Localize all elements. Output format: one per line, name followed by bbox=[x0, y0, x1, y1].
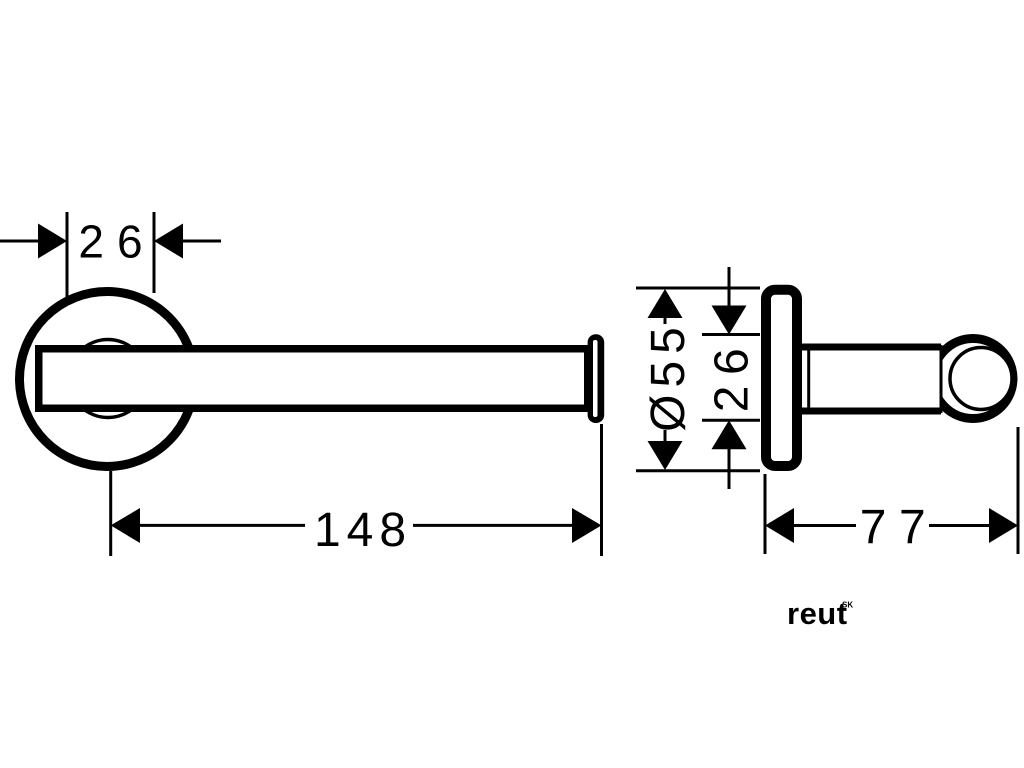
dim 26 (front) right tail line bbox=[183, 240, 221, 243]
svg-text:148: 148 bbox=[314, 504, 412, 557]
dim 26 (side) top tail line bbox=[728, 267, 731, 307]
side view: bar bottom edge bbox=[800, 408, 941, 415]
dim 77 line left segment bbox=[792, 524, 856, 527]
side view: bar top edge bbox=[800, 344, 941, 351]
dim 148 line left segment bbox=[138, 524, 305, 527]
side view: bar end line bbox=[940, 345, 943, 413]
dim 26 (side) bottom extension line bbox=[702, 419, 760, 422]
dim Ø55 down arrow bbox=[648, 441, 683, 470]
dim 26 (front) right arrow bbox=[154, 224, 183, 259]
svg-text:Ø55: Ø55 bbox=[642, 320, 695, 432]
dim Ø55 top extension line bbox=[636, 287, 760, 290]
svg-text:SK: SK bbox=[842, 601, 853, 610]
dim Ø55 line upper segment bbox=[664, 316, 667, 324]
front view: bar end cap bbox=[588, 334, 605, 423]
svg-text:77: 77 bbox=[860, 501, 938, 554]
dim 148 right arrow bbox=[572, 508, 602, 543]
dim 77 left extension line bbox=[764, 474, 767, 554]
dim 77 right arrow bbox=[989, 508, 1018, 543]
svg-text:26: 26 bbox=[706, 338, 759, 412]
dim Ø55 up arrow bbox=[648, 289, 683, 318]
dim 77 left arrow bbox=[765, 508, 794, 543]
side view: ring outer circle bbox=[933, 339, 1013, 419]
svg-text:reut: reut bbox=[787, 596, 848, 631]
side view: collar junction line bbox=[807, 350, 810, 408]
dim 77 line right segment bbox=[929, 524, 991, 527]
front view: bar end cap slit bbox=[593, 340, 598, 417]
front view: wall plate circle Ø55 bbox=[20, 292, 195, 467]
side view: ring inner circle bbox=[950, 348, 1012, 410]
side view: wall plate bbox=[766, 290, 797, 466]
dim 148 line right segment bbox=[413, 524, 574, 527]
dim 77 right extension line bbox=[1017, 427, 1020, 554]
dim 26 (front) left extension line bbox=[66, 212, 69, 299]
dim 26 (front) left arrow bbox=[38, 224, 67, 259]
dim Ø55 line lower segment bbox=[664, 430, 667, 443]
dim 148 left extension line bbox=[109, 471, 112, 556]
dim 26 (front) left tail line bbox=[0, 240, 39, 243]
dim 26 (front) right extension line bbox=[153, 212, 156, 293]
dim 148 left arrow bbox=[111, 508, 140, 543]
front view: roll bar bbox=[39, 349, 588, 409]
dim 26 (side) up arrow bbox=[712, 420, 747, 449]
dim 26 (side) top extension line bbox=[702, 333, 760, 336]
dim 26 (side) bottom tail line bbox=[728, 448, 731, 489]
front view: mounting collar circle Ø26 bbox=[69, 340, 147, 418]
dim 26 (side) down arrow bbox=[712, 306, 747, 335]
svg-text:26: 26 bbox=[78, 216, 155, 268]
dim 148 right extension line bbox=[600, 424, 603, 556]
dim Ø55 bottom extension line bbox=[636, 469, 760, 472]
side view: bar fill bbox=[800, 347, 941, 411]
